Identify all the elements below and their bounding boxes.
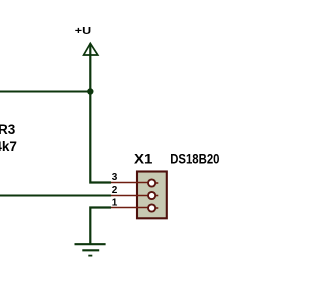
pin 1 pad (148, 204, 158, 211)
svg-text:3: 3 (112, 172, 118, 183)
wire: pin 1 to ground (90, 208, 111, 244)
ground (75, 244, 106, 255)
connector X1 body (137, 172, 167, 219)
svg-text:R3: R3 (0, 122, 16, 137)
junction (87, 88, 93, 94)
wire: +U down to junction (89, 44, 91, 92)
pin 1 lead (111, 207, 148, 209)
svg-text:DS18B20: DS18B20 (170, 152, 219, 167)
svg-text:4k7: 4k7 (0, 139, 17, 154)
svg-text:X1: X1 (134, 152, 153, 167)
resistor R3 value labels (resistor body off-screen left) (0, 122, 17, 154)
svg-text:+U: +U (75, 26, 91, 37)
pin 3 pad (148, 179, 158, 186)
wire: horizontal to R3 (off-screen left) at +U rail (0, 91, 90, 93)
pin 2 lead (111, 195, 148, 197)
pin 3 lead (111, 182, 148, 184)
wire: junction down to pin3 elbow (90, 92, 111, 183)
supply symbol +U (75, 26, 98, 55)
svg-text:2: 2 (112, 185, 118, 196)
pin 2 pad (148, 192, 158, 199)
svg-text:1: 1 (112, 198, 118, 209)
wire: data net from off-screen left to pin 2 (0, 195, 111, 197)
